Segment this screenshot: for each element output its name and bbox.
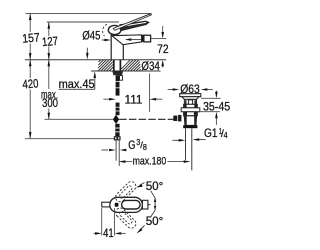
mounting nut bbox=[112, 71, 123, 76]
hose end fitting G3/8 bbox=[115, 124, 119, 137]
svg-text:50°: 50° bbox=[146, 179, 164, 193]
dimension 111 bbox=[103, 74, 162, 112]
waste lower body bbox=[184, 116, 196, 126]
waste bottom collar bbox=[183, 125, 197, 128]
rod ball joint bbox=[173, 116, 177, 121]
top view: lever swung down (dashed) bbox=[116, 208, 136, 228]
top view: lever swung up (dashed) bbox=[116, 182, 136, 202]
lever rest position bbox=[120, 21, 149, 30]
deck hatching left bbox=[98, 60, 113, 71]
svg-text:8: 8 bbox=[143, 143, 147, 152]
spout junction dark band bbox=[141, 35, 144, 42]
waste tailpipe bbox=[186, 128, 192, 170]
hose end pipe bbox=[116, 140, 119, 166]
shank through deck bbox=[114, 60, 121, 71]
deck top line bbox=[25, 59, 166, 61]
dimension D63 bbox=[168, 82, 213, 96]
aerator bbox=[144, 35, 151, 42]
top view: pivot dot bbox=[115, 203, 119, 207]
lever rest inner line bbox=[122, 22, 146, 26]
waste neck inner bbox=[188, 100, 192, 104]
svg-text:4: 4 bbox=[224, 130, 228, 140]
top view: aerator tick bbox=[148, 204, 150, 206]
rod guide bbox=[120, 76, 123, 81]
svg-text:420: 420 bbox=[22, 76, 39, 91]
svg-text:Ø45: Ø45 bbox=[82, 28, 100, 42]
dimension 420 bbox=[22, 60, 39, 139]
waste neck bbox=[184, 99, 196, 104]
dimension max.300 bbox=[41, 60, 58, 120]
waste upper band bbox=[184, 104, 198, 108]
swing double arrow bbox=[151, 191, 157, 217]
lever swing dashed arc bbox=[103, 24, 107, 36]
svg-text:72: 72 bbox=[157, 42, 169, 56]
lever knob bbox=[108, 25, 121, 34]
extension line top (lever raised level) bbox=[26, 12, 152, 14]
svg-text:41: 41 bbox=[103, 226, 114, 240]
deck hatching right bbox=[121, 60, 140, 71]
svg-text:300: 300 bbox=[42, 96, 58, 110]
svg-text:G1: G1 bbox=[204, 126, 218, 140]
leader to bottom lever position bbox=[137, 226, 145, 234]
dimension 72 bbox=[151, 26, 169, 68]
svg-text:111: 111 bbox=[125, 93, 143, 107]
note max.45 with leaders bbox=[59, 48, 97, 91]
dimension 157 bbox=[22, 13, 41, 59]
svg-text:50°: 50° bbox=[146, 214, 164, 228]
svg-text:Ø34: Ø34 bbox=[141, 59, 160, 73]
supply hose lower bbox=[116, 103, 120, 116]
waste seat flange bbox=[181, 108, 200, 112]
dimension D45 bbox=[82, 28, 141, 42]
top view: front stub bbox=[102, 202, 110, 207]
max.300 reference line / pop-up rod bbox=[45, 118, 113, 120]
lever raised position bbox=[113, 14, 151, 31]
svg-text:35-45: 35-45 bbox=[203, 100, 230, 114]
top view: spout slot bbox=[122, 200, 141, 209]
dimension 127 bbox=[41, 22, 58, 60]
420 reference line bottom bbox=[25, 138, 114, 140]
label G3/8 with arrows bbox=[102, 138, 148, 152]
top view: aerator square bbox=[142, 200, 148, 209]
label G1 1/4 with arrows bbox=[172, 126, 227, 142]
dimension 41 bbox=[94, 208, 126, 240]
svg-text:157: 157 bbox=[22, 30, 41, 45]
dimension 35-45 bbox=[200, 91, 231, 125]
extension line lever rest level bbox=[47, 21, 119, 23]
rod joint diamond bbox=[113, 115, 119, 124]
top view: body bbox=[110, 197, 143, 212]
spout wedge bbox=[112, 35, 142, 45]
deck bottom line bbox=[91, 70, 161, 72]
svg-text:Ø63: Ø63 bbox=[180, 82, 200, 96]
waste mounting nut bbox=[184, 112, 198, 116]
svg-text:max.180: max.180 bbox=[133, 155, 167, 167]
leader to top lever position bbox=[136, 183, 145, 188]
svg-text:127: 127 bbox=[41, 34, 58, 49]
faucet body bbox=[111, 34, 141, 60]
supply hose upper bbox=[116, 75, 120, 95]
pop-up waste: plug flange bbox=[180, 94, 201, 97]
svg-text:G: G bbox=[128, 138, 135, 152]
dimension max.180 bbox=[119, 155, 191, 167]
